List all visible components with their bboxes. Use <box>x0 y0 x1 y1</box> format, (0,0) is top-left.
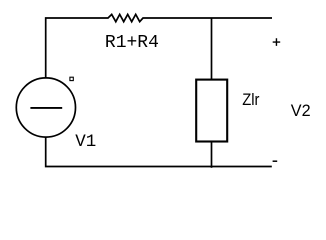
svg-text:V2: V2 <box>291 102 311 120</box>
svg-text:Zlr: Zlr <box>242 91 259 109</box>
svg-text:V1: V1 <box>75 132 96 152</box>
svg-text:R1+R4: R1+R4 <box>105 33 159 53</box>
